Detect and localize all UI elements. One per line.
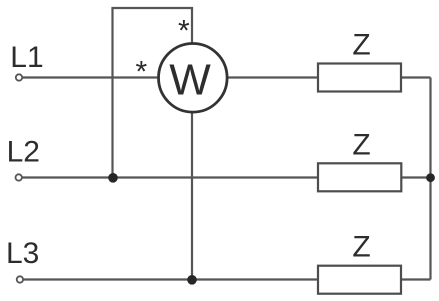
- junction dot on L2: [108, 173, 118, 183]
- svg-text:Z: Z: [352, 231, 370, 264]
- junction dot on L3: [187, 275, 197, 285]
- svg-text:L3: L3: [6, 237, 39, 270]
- wire Z2 to right bus: [401, 176, 431, 178]
- wire wattmeter bottom to L3: [191, 112, 193, 280]
- terminal L2: [16, 174, 22, 180]
- wire L2 terminal to Z2: [23, 176, 319, 178]
- wire Z3 to right bus: [401, 278, 431, 280]
- svg-text:L1: L1: [10, 41, 43, 74]
- terminal L3: [17, 276, 23, 282]
- load Z1: [318, 29, 401, 92]
- wattmeter W: [159, 44, 228, 113]
- wire wattmeter to Z1: [228, 76, 318, 78]
- wire L1 terminal to wattmeter: [23, 76, 159, 78]
- junction dot right bus: [426, 173, 435, 182]
- svg-text:Z: Z: [352, 129, 370, 162]
- svg-text:L2: L2: [7, 135, 40, 168]
- wire Z1 to right bus: [401, 76, 431, 78]
- svg-text:W: W: [169, 56, 211, 105]
- svg-text:*: *: [178, 15, 190, 48]
- load Z2: [318, 129, 401, 192]
- wire L3 terminal to Z3: [24, 278, 319, 280]
- svg-text:*: *: [135, 55, 147, 88]
- wire right bus vertical: [429, 78, 431, 280]
- svg-text:Z: Z: [352, 29, 370, 62]
- wire voltage branch vertical to L2: [111, 8, 113, 178]
- wire top of wattmeter: [191, 8, 193, 44]
- terminal L1: [16, 74, 22, 80]
- load Z3: [318, 231, 401, 294]
- wire voltage branch top horizontal: [111, 7, 193, 9]
